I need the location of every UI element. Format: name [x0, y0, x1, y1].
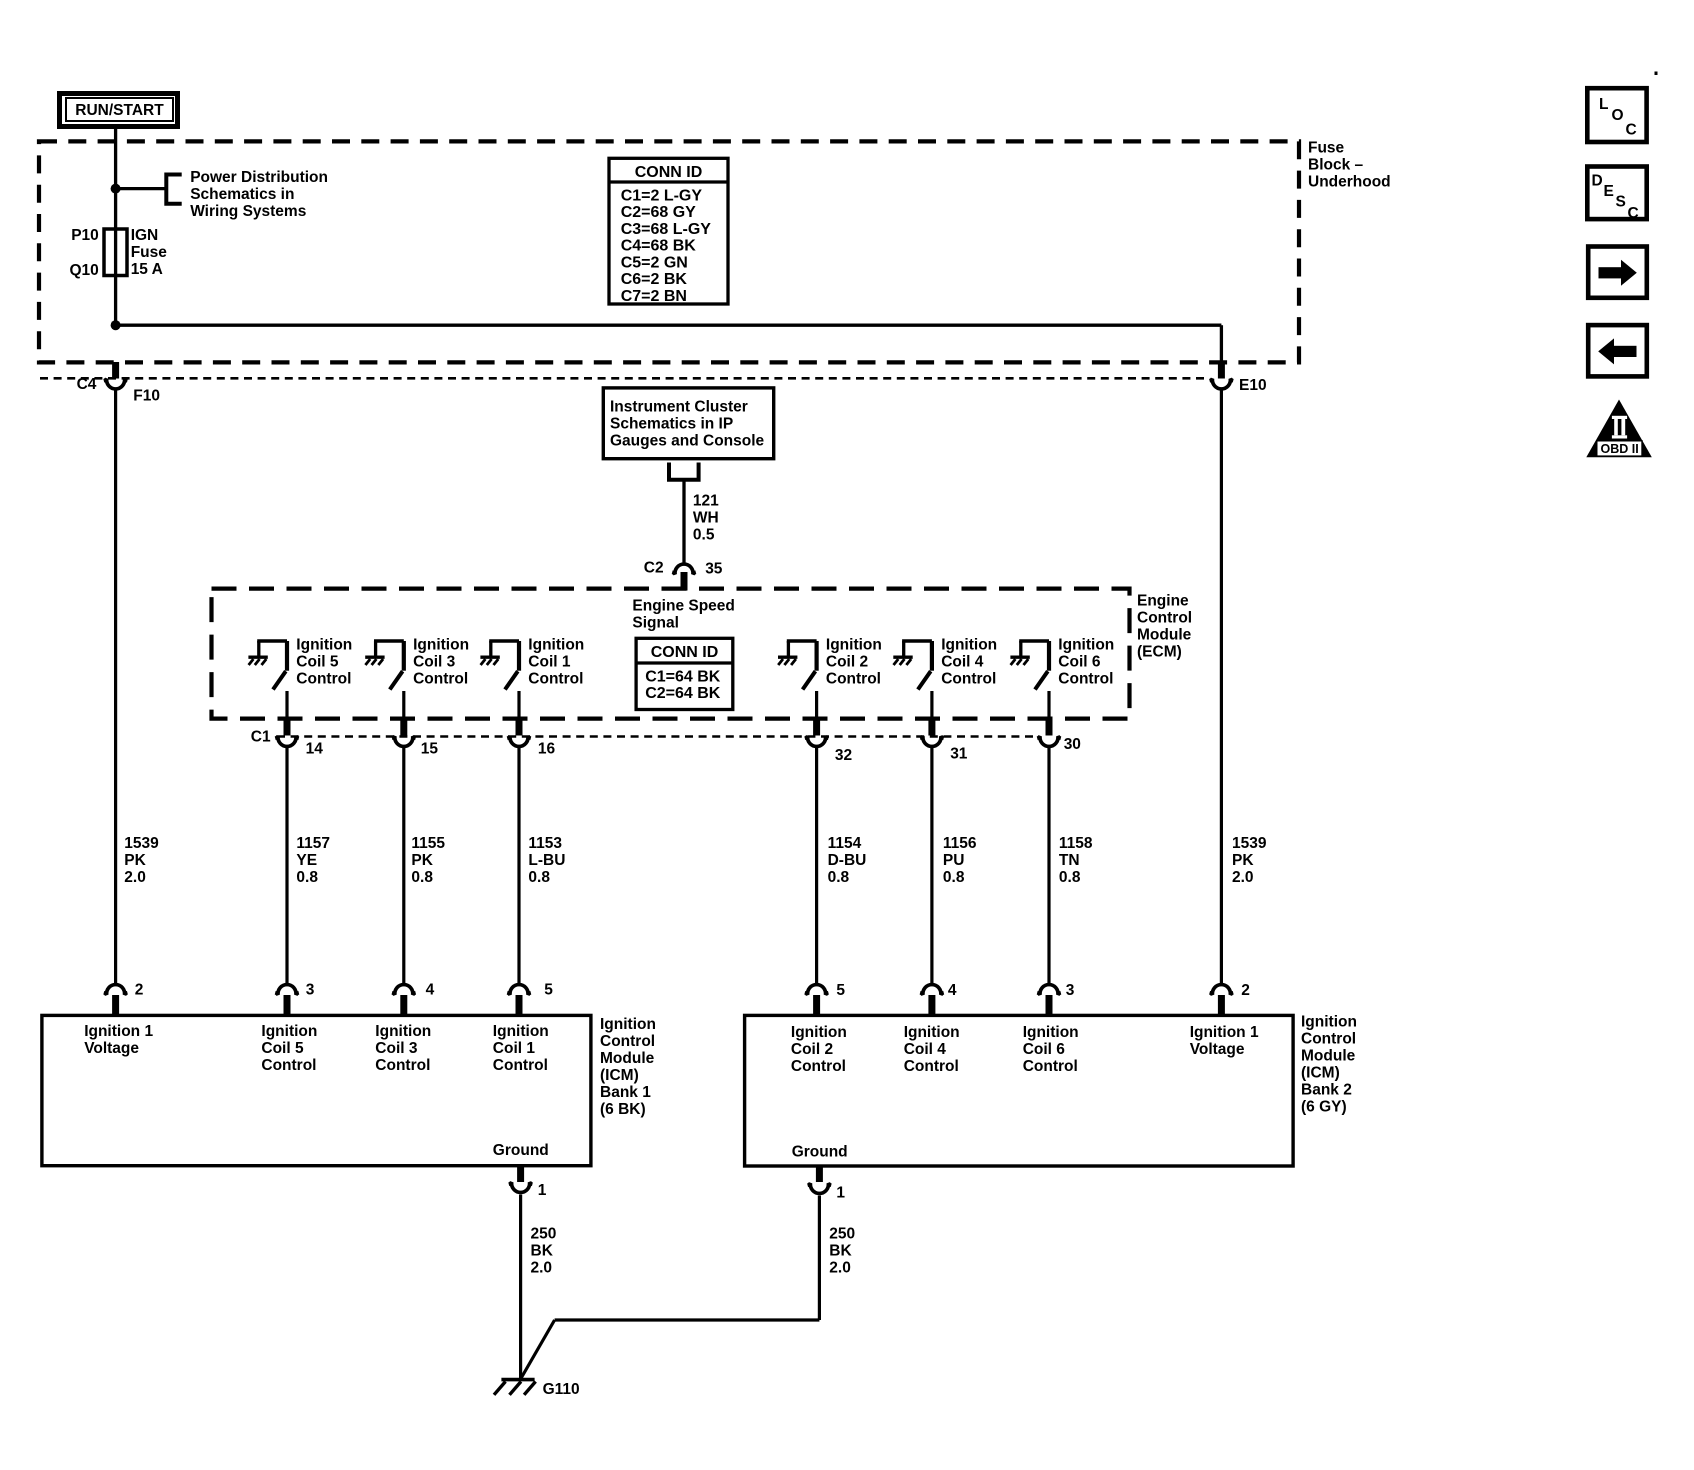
svg-text:1539: 1539: [124, 835, 159, 852]
svg-text:1157: 1157: [296, 835, 330, 852]
connector C1/C2 pin 15 stub: [400, 717, 407, 736]
svg-text:Control: Control: [261, 1057, 316, 1074]
ICM2 pin 2 dome: [1210, 985, 1234, 995]
svg-text:2.0: 2.0: [124, 869, 146, 886]
svg-text:C6=2 BK: C6=2 BK: [621, 271, 688, 288]
speck artifact: [1655, 72, 1658, 76]
svg-text:PK: PK: [1232, 852, 1254, 869]
svg-text:Coil 5: Coil 5: [261, 1040, 304, 1057]
svg-text:250: 250: [829, 1226, 855, 1243]
svg-text:Ignition: Ignition: [600, 1016, 656, 1033]
svg-text:16: 16: [538, 741, 556, 758]
svg-text:F10: F10: [133, 388, 160, 405]
svg-text:C1=2 L-GY: C1=2 L-GY: [621, 187, 703, 204]
ICM1 pin 4 stub: [400, 995, 407, 1016]
connector C4/F10 cup: [104, 379, 128, 389]
svg-text:Coil 4: Coil 4: [904, 1041, 947, 1058]
ICM1 pin 2 dome: [104, 985, 128, 995]
svg-text:CONN ID: CONN ID: [651, 644, 719, 661]
svg-text:L: L: [1599, 96, 1608, 113]
svg-text:P10: P10: [71, 227, 99, 244]
svg-text:0.5: 0.5: [693, 527, 715, 544]
svg-text:(ICM): (ICM): [600, 1067, 639, 1084]
svg-text:Fuse: Fuse: [131, 244, 168, 261]
svg-text:Ignition: Ignition: [413, 637, 469, 654]
svg-text:RUN/START: RUN/START: [75, 102, 164, 119]
svg-text:Ignition: Ignition: [941, 637, 997, 654]
svg-text:Control: Control: [600, 1033, 655, 1050]
svg-text:Coil 5: Coil 5: [296, 654, 339, 671]
svg-text:Power Distribution: Power Distribution: [190, 169, 328, 186]
svg-text:5: 5: [544, 982, 553, 999]
svg-text:Coil 2: Coil 2: [826, 654, 868, 671]
ICM2 ground pin 1 stub: [816, 1166, 823, 1182]
connector C1/C2 pin 31 stub: [928, 717, 935, 736]
ICM bank 2 box: [745, 1015, 1294, 1166]
svg-text:C: C: [1626, 122, 1637, 139]
svg-text:Wiring Systems: Wiring Systems: [190, 203, 306, 220]
svg-text:E: E: [1604, 183, 1614, 200]
svg-text:Coil 6: Coil 6: [1023, 1041, 1066, 1058]
svg-text:1156: 1156: [943, 835, 977, 852]
connector C1/C2 pin 16 stub: [516, 717, 523, 736]
ground G110 symbol: [494, 1380, 536, 1395]
svg-text:Control: Control: [904, 1058, 959, 1075]
svg-text:Ignition 1: Ignition 1: [84, 1023, 153, 1040]
coil driver ground (Coil 5): [248, 657, 267, 665]
svg-text:0.8: 0.8: [828, 869, 850, 886]
svg-text:C4: C4: [77, 376, 97, 393]
svg-text:1: 1: [538, 1182, 547, 1199]
svg-text:WH: WH: [693, 510, 719, 527]
svg-text:Module: Module: [1301, 1048, 1356, 1065]
connector E10 pin stub: [1218, 362, 1225, 379]
ICM bank 1 box: [42, 1015, 591, 1165]
connector E10 cup: [1210, 379, 1234, 389]
svg-text:Module: Module: [600, 1050, 655, 1067]
connector C1/C2 pin 32 cup: [805, 736, 829, 746]
forward arrow icon: [1588, 247, 1647, 298]
connector C1/C2 pin 14 stub: [284, 717, 291, 736]
svg-text:C: C: [1628, 205, 1639, 222]
svg-text:Instrument Cluster: Instrument Cluster: [610, 399, 748, 416]
svg-text:0.8: 0.8: [1059, 869, 1081, 886]
svg-text:Coil 3: Coil 3: [375, 1040, 418, 1057]
ICM1 pin 3 stub: [284, 995, 291, 1016]
svg-text:S: S: [1616, 193, 1626, 210]
svg-text:Ignition: Ignition: [296, 637, 352, 654]
svg-text:PU: PU: [943, 852, 965, 869]
svg-text:Ignition: Ignition: [791, 1024, 847, 1041]
svg-text:Fuse: Fuse: [1308, 140, 1345, 157]
svg-text:Ignition: Ignition: [375, 1023, 431, 1040]
coil driver ground (Coil 2): [778, 657, 797, 665]
ICM1 ground pin 1 cup: [509, 1182, 533, 1192]
connector C2 pin stub: [681, 572, 688, 591]
ICM1 ground pin 1 stub: [517, 1166, 524, 1182]
svg-text:(ECM): (ECM): [1137, 644, 1182, 661]
ICM1 pin 5 dome: [507, 985, 531, 995]
ECM dashed box: [212, 589, 1130, 719]
ICM1 pin 5 stub: [516, 995, 523, 1016]
svg-text:L-BU: L-BU: [528, 852, 565, 869]
svg-text:Control: Control: [1301, 1031, 1356, 1048]
coil driver switch (Coil 3): [374, 641, 404, 717]
wire: ECM pin 32 to ICM pin 5: [815, 748, 818, 984]
wire: bank2 ground horizontal run: [555, 1318, 820, 1321]
svg-text:(6 BK): (6 BK): [600, 1101, 646, 1118]
svg-text:Block –: Block –: [1308, 157, 1364, 174]
svg-text:Bank 1: Bank 1: [600, 1084, 651, 1101]
wire: ICM bank1 ground to G110: [519, 1195, 522, 1380]
svg-text:Coil 3: Coil 3: [413, 654, 456, 671]
coil driver switch (Coil 2): [787, 641, 817, 717]
svg-text:CONN ID: CONN ID: [635, 164, 703, 181]
CONN ID table (fuse block): [609, 158, 728, 305]
svg-text:35: 35: [705, 561, 723, 578]
svg-text:14: 14: [306, 741, 324, 758]
svg-text:2: 2: [135, 982, 144, 999]
junction dot at branch: [111, 184, 121, 194]
fuse block underhood dashed box: [39, 141, 1299, 362]
coil driver switch (Coil 4): [902, 641, 932, 717]
wire: RUN/START down through fuse to bus: [114, 129, 117, 325]
svg-text:5: 5: [836, 982, 845, 999]
svg-text:Ignition: Ignition: [493, 1023, 549, 1040]
svg-text:Q10: Q10: [69, 262, 98, 279]
svg-text:Control: Control: [1137, 610, 1192, 627]
svg-text:Voltage: Voltage: [1190, 1041, 1245, 1058]
connector C1/C2 pin 30 cup: [1037, 736, 1061, 746]
wire: bus down to E10: [1220, 325, 1223, 364]
wire: ECM pin 14 to ICM pin 3: [285, 748, 288, 984]
svg-text:Control: Control: [528, 671, 583, 688]
coil driver switch (Coil 1): [489, 641, 519, 717]
svg-text:D: D: [1592, 172, 1603, 189]
svg-text:0.8: 0.8: [411, 869, 433, 886]
back arrow icon: [1588, 325, 1647, 376]
svg-text:1539: 1539: [1232, 835, 1267, 852]
svg-text:Module: Module: [1137, 627, 1192, 644]
svg-text:Coil 1: Coil 1: [528, 654, 571, 671]
svg-text:Bank 2: Bank 2: [1301, 1082, 1352, 1099]
coil driver ground (Coil 3): [365, 657, 384, 665]
wire: ECM pin 30 to ICM pin 3: [1047, 748, 1050, 984]
ICM2 pin 3 stub: [1046, 995, 1053, 1016]
ICM1 pin 4 dome: [392, 985, 416, 995]
svg-text:Ignition 1: Ignition 1: [1190, 1024, 1259, 1041]
coil driver switch (Coil 6): [1019, 641, 1049, 717]
svg-text:4: 4: [426, 982, 435, 999]
svg-text:Schematics in: Schematics in: [190, 186, 294, 203]
svg-text:0.8: 0.8: [296, 869, 318, 886]
svg-text:0.8: 0.8: [528, 869, 550, 886]
connector C1/C2 pin 14 cup: [275, 736, 299, 746]
svg-text:Control: Control: [296, 671, 351, 688]
svg-text:1158: 1158: [1059, 835, 1093, 852]
svg-text:TN: TN: [1059, 852, 1080, 869]
ICM2 pin 4 dome: [920, 985, 944, 995]
svg-text:2.0: 2.0: [829, 1260, 851, 1277]
wire: ECM pin 16 to ICM pin 5: [517, 748, 520, 984]
ICM1 pin 3 dome: [275, 985, 299, 995]
svg-text:Gauges and Console: Gauges and Console: [610, 433, 765, 450]
off-page U bracket under instrument cluster: [669, 463, 699, 480]
svg-text:OBD II: OBD II: [1600, 442, 1638, 456]
svg-text:C4=68 BK: C4=68 BK: [621, 238, 697, 255]
svg-text:D-BU: D-BU: [828, 852, 867, 869]
svg-text:Signal: Signal: [632, 615, 679, 632]
ICM2 pin 4 stub: [928, 995, 935, 1016]
svg-text:32: 32: [835, 747, 852, 764]
svg-text:Control: Control: [791, 1058, 846, 1075]
svg-text:Coil 4: Coil 4: [941, 654, 984, 671]
connector C1/C2 pin 31 cup: [920, 736, 944, 746]
connector C1/C2 pin 30 stub: [1046, 717, 1053, 736]
svg-text:Coil 6: Coil 6: [1058, 654, 1101, 671]
svg-text:BK: BK: [531, 1243, 554, 1260]
wire: ECM pin 31 to ICM pin 4: [930, 748, 933, 984]
svg-text:2.0: 2.0: [1232, 869, 1254, 886]
svg-text:250: 250: [531, 1226, 557, 1243]
coil driver ground (Coil 4): [893, 657, 912, 665]
svg-text:Control: Control: [1023, 1058, 1078, 1075]
svg-text:0.8: 0.8: [943, 869, 965, 886]
connector C1/C2 pin 16 cup: [507, 736, 531, 746]
svg-text:C1: C1: [251, 729, 271, 746]
junction dot at bus: [111, 320, 121, 330]
wire: instrument cluster to C2: [682, 480, 685, 563]
wire: C4 to ICM bank1 pin 2: [114, 391, 117, 984]
RUN/START power source box: [60, 94, 178, 127]
LOC icon: [1587, 88, 1646, 142]
svg-text:C2=68 GY: C2=68 GY: [621, 204, 696, 221]
svg-text:Ignition: Ignition: [261, 1023, 317, 1040]
svg-text:1154: 1154: [828, 835, 862, 852]
svg-text:Control: Control: [413, 671, 468, 688]
svg-text:PK: PK: [124, 852, 146, 869]
DESC icon: [1587, 167, 1646, 223]
svg-text:Engine: Engine: [1137, 593, 1189, 610]
svg-text:31: 31: [950, 745, 968, 762]
svg-text:E10: E10: [1239, 377, 1267, 394]
wire: ICM bank2 ground down: [818, 1196, 821, 1321]
svg-text:O: O: [1612, 107, 1624, 124]
wire: branch to power distribution bracket: [116, 187, 167, 190]
svg-text:Control: Control: [941, 671, 996, 688]
svg-text:2: 2: [1241, 982, 1250, 999]
svg-text:C7=2 BN: C7=2 BN: [621, 288, 687, 305]
svg-text:2.0: 2.0: [531, 1260, 553, 1277]
connector C4/F10 pin stub: [112, 362, 119, 379]
bracket: refer to power distribution schematics: [166, 175, 181, 204]
svg-text:C3=68 L-GY: C3=68 L-GY: [621, 221, 712, 238]
svg-text:G110: G110: [543, 1381, 580, 1398]
ICM1 pin 2 stub: [112, 995, 119, 1016]
svg-text:30: 30: [1064, 736, 1081, 753]
wire: bank2 ground diagonal to G110: [521, 1320, 555, 1379]
svg-text:1: 1: [836, 1185, 845, 1202]
ICM2 pin 2 stub: [1218, 995, 1225, 1016]
svg-text:Ignition: Ignition: [1023, 1024, 1079, 1041]
coil driver switch (Coil 5): [257, 641, 287, 717]
svg-text:Control: Control: [1058, 671, 1113, 688]
svg-text:Control: Control: [826, 671, 881, 688]
svg-text:C2: C2: [644, 560, 664, 577]
svg-text:Ignition: Ignition: [1058, 637, 1114, 654]
svg-text:3: 3: [1066, 982, 1075, 999]
connector C2 dome: [672, 564, 696, 574]
ICM2 pin 5 stub: [813, 995, 820, 1016]
svg-text:121: 121: [693, 493, 719, 510]
svg-text:Underhood: Underhood: [1308, 174, 1391, 191]
svg-text:Coil 1: Coil 1: [493, 1040, 536, 1057]
power bus wire across fuse block: [116, 324, 1222, 327]
svg-text:YE: YE: [296, 852, 317, 869]
svg-text:15: 15: [421, 741, 439, 758]
svg-text:Voltage: Voltage: [84, 1040, 139, 1057]
wire: E10 to ICM bank2 pin 2: [1220, 391, 1223, 984]
svg-text:BK: BK: [829, 1243, 852, 1260]
ICM2 pin 3 dome: [1037, 985, 1061, 995]
svg-text:(ICM): (ICM): [1301, 1065, 1340, 1082]
svg-text:C1=64 BK: C1=64 BK: [645, 668, 721, 685]
svg-text:Ignition: Ignition: [904, 1024, 960, 1041]
svg-text:Ground: Ground: [792, 1144, 848, 1161]
svg-text:C2=64 BK: C2=64 BK: [645, 685, 721, 702]
svg-text:Ground: Ground: [493, 1142, 549, 1159]
svg-text:Ignition: Ignition: [1301, 1014, 1357, 1031]
svg-text:3: 3: [306, 982, 315, 999]
svg-text:15 A: 15 A: [131, 261, 163, 278]
CONN ID table (ECM): [636, 638, 733, 709]
svg-text:PK: PK: [411, 852, 433, 869]
connector C1/C2 pin 15 cup: [392, 736, 416, 746]
coil driver ground (Coil 1): [480, 657, 499, 665]
svg-text:Engine Speed: Engine Speed: [632, 598, 735, 615]
svg-text:Control: Control: [375, 1057, 430, 1074]
svg-text:IGN: IGN: [131, 227, 159, 244]
svg-text:1155: 1155: [411, 835, 445, 852]
dotted harness line below fuse block: [40, 377, 1208, 380]
fuse IGN 15A body: [104, 229, 127, 276]
connector C1/C2 pin 32 stub: [813, 717, 820, 736]
coil driver ground (Coil 6): [1010, 657, 1029, 665]
OBD II icon: [1586, 400, 1652, 458]
instrument cluster reference box: [603, 388, 773, 459]
svg-text:Coil 2: Coil 2: [791, 1041, 833, 1058]
svg-text:4: 4: [948, 982, 957, 999]
svg-text:Ignition: Ignition: [826, 637, 882, 654]
dotted harness line C1 below ECM: [277, 735, 1037, 738]
svg-text:C5=2 GN: C5=2 GN: [621, 254, 688, 271]
svg-text:Schematics in IP: Schematics in IP: [610, 416, 733, 433]
svg-text:Ignition: Ignition: [528, 637, 584, 654]
ICM2 pin 5 dome: [805, 985, 829, 995]
svg-text:Control: Control: [493, 1057, 548, 1074]
svg-text:1153: 1153: [528, 835, 562, 852]
ICM2 ground pin 1 cup: [808, 1183, 832, 1193]
svg-text:(6 GY): (6 GY): [1301, 1099, 1347, 1116]
wire: ECM pin 15 to ICM pin 4: [402, 748, 405, 984]
